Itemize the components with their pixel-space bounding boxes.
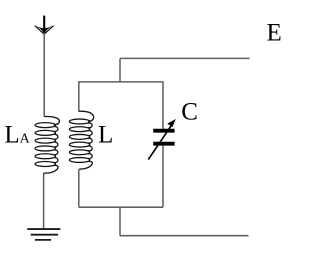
wire tank left upper (to L): [78, 81, 80, 111]
wire tank bottom: [79, 206, 163, 208]
wire output bottom horizontal: [120, 235, 249, 237]
svg-text:E: E: [267, 19, 282, 46]
svg-text:L: L: [98, 121, 113, 148]
ground: [27, 229, 60, 240]
wire output top vertical: [119, 58, 121, 82]
svg-text:LA: LA: [4, 121, 30, 148]
wire tank right upper (to C): [162, 81, 164, 129]
wire antenna to inductor LA: [43, 33, 45, 117]
inductor L: [69, 111, 93, 170]
wire LA to ground: [43, 174, 45, 229]
wire L to tank bottom: [78, 170, 80, 208]
wire C to tank bottom: [162, 146, 164, 208]
svg-text:C: C: [181, 98, 198, 125]
capacitor C (variable): [148, 119, 176, 160]
inductor LA: [35, 116, 59, 173]
wire output bottom vertical: [119, 207, 121, 236]
wire output top horizontal to E: [120, 57, 250, 59]
antenna A1 (arrow symbol): [35, 16, 54, 35]
wire tank top: [79, 81, 163, 83]
